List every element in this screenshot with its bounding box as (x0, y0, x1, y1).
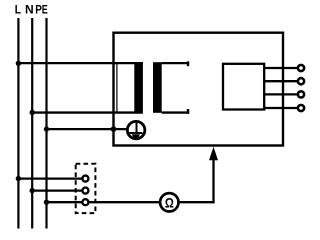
wire output 1 (265, 67, 298, 69)
node L junction (16, 61, 21, 66)
wire ohmmeter to corner (178, 201, 214, 203)
terminal plug pin 2 (82, 188, 88, 194)
wire rail N (31, 18, 33, 229)
output module box (223, 64, 264, 110)
transformer T1 primary left side (116, 62, 118, 113)
transformer T1 secondary bottom lead stub (187, 109, 189, 114)
transformer T1 primary bar (134, 62, 143, 113)
node N junction (30, 110, 35, 115)
transformer T1 secondary bar (153, 62, 162, 113)
terminal plug pin 1 (82, 176, 88, 182)
arrow head pointing at enclosure (209, 147, 218, 161)
svg-text:N: N (25, 2, 34, 16)
wire PE to plug pin 3 (45, 201, 82, 203)
transformer T1 secondary top lead (162, 62, 190, 64)
terminal output 4 (298, 105, 304, 111)
wire L to plug pin 1 (17, 177, 82, 179)
wire output 2 (265, 80, 298, 82)
wire N to transformer primary bottom (31, 111, 143, 113)
wire output 3 (265, 93, 298, 95)
enclosure box (device under test) (114, 33, 284, 146)
plug connector dashed box (76, 164, 96, 213)
svg-text:Ω: Ω (165, 195, 174, 210)
wire PE to earth symbol (45, 128, 129, 130)
node PE plug junction (44, 200, 49, 205)
svg-text:P: P (35, 4, 42, 17)
terminal plug pin 3 (82, 199, 88, 205)
node L plug junction (16, 176, 21, 181)
wire L to transformer primary top (17, 62, 143, 64)
svg-text:E: E (42, 3, 48, 17)
transformer T1 secondary bottom lead (162, 111, 190, 113)
node N plug junction (30, 188, 35, 193)
wire N to plug pin 2 (31, 189, 82, 191)
protective earth stem (136, 122, 138, 133)
terminal output 2 (298, 78, 304, 84)
transformer T1 secondary top lead stub (187, 61, 189, 66)
protective earth base (132, 134, 140, 137)
ohmmeter M1 circle (160, 193, 178, 211)
wire rail L (17, 18, 19, 229)
wire output 4 (265, 107, 298, 109)
wire plug pin 3 to ohmmeter (89, 201, 161, 203)
node PE junction (44, 126, 49, 131)
svg-text:L: L (15, 4, 21, 17)
wire corner up to arrow (212, 159, 214, 204)
wire rail PE (45, 18, 47, 229)
node PE at enclosure wall (111, 126, 117, 132)
terminal output 3 (298, 91, 304, 97)
protective earth bar (129, 132, 142, 134)
protective earth symbol circle (127, 121, 145, 139)
terminal output 1 (298, 65, 304, 71)
